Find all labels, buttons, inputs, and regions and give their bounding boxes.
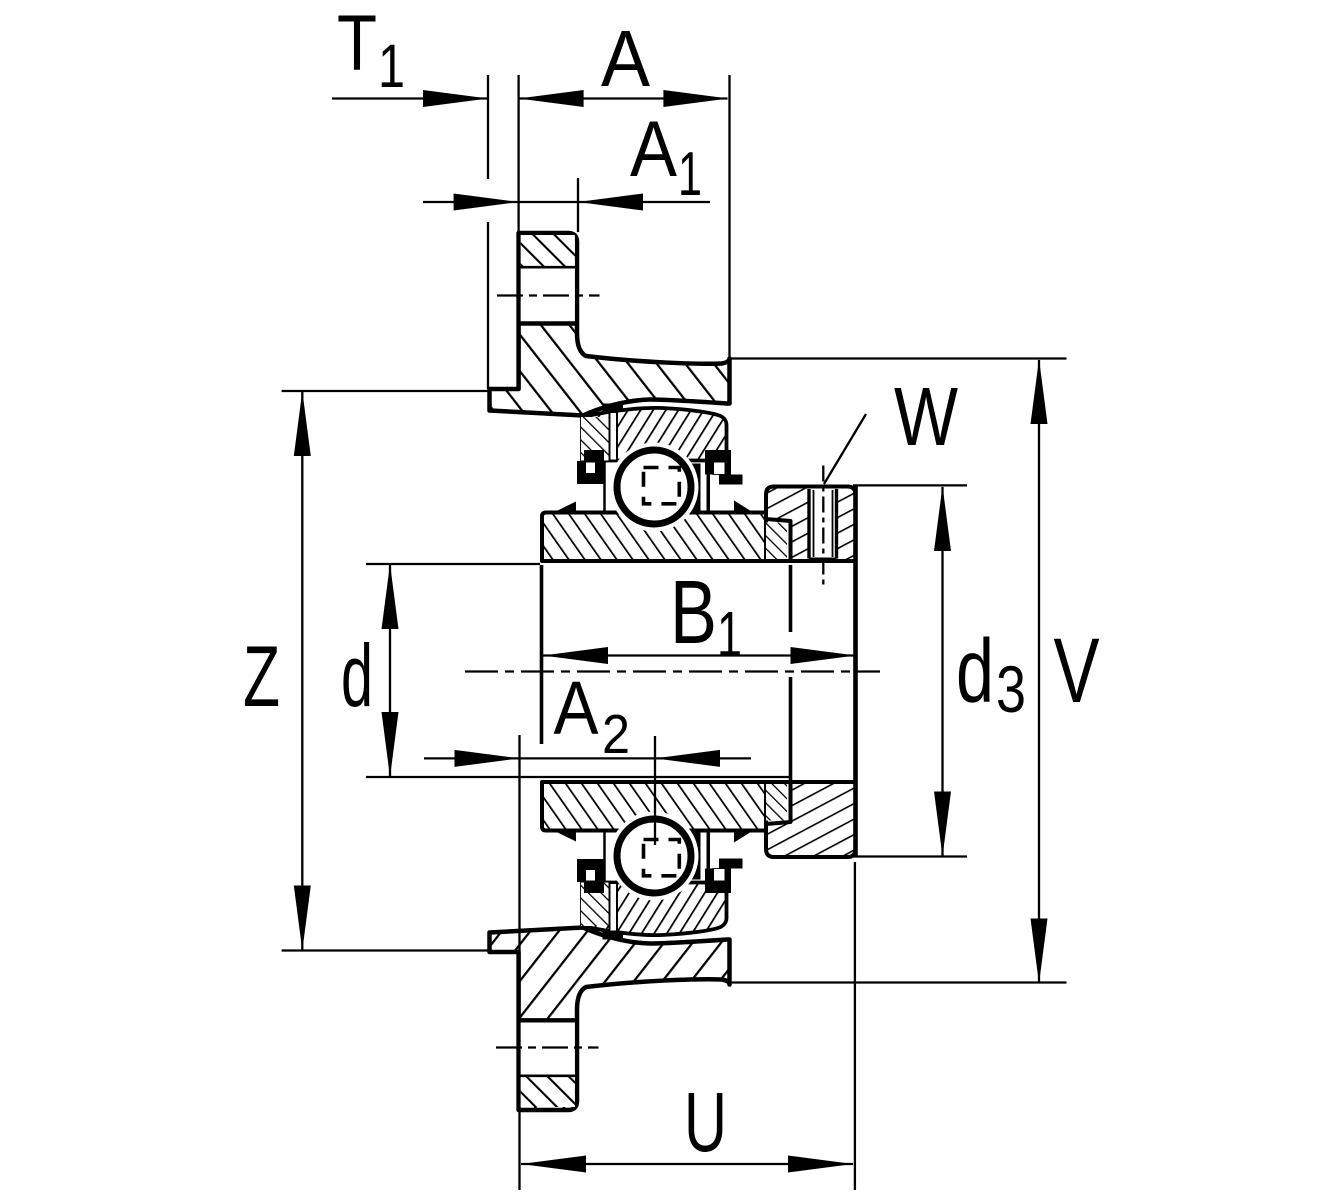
flinger lower right — [734, 831, 753, 843]
seal clamp upper left (black) — [603, 404, 624, 413]
dimension T1 line — [332, 97, 487, 99]
leader line W — [824, 414, 866, 484]
dimension Z line — [301, 392, 303, 950]
svg-text:A: A — [601, 14, 651, 103]
extension line d3 top — [853, 484, 967, 486]
svg-text:A: A — [554, 666, 599, 750]
svg-text:d: d — [341, 626, 373, 725]
inner ring shoulder lower right — [690, 832, 701, 880]
seal ring upper right (hatched) — [766, 523, 787, 562]
dimension d line — [389, 565, 391, 776]
upper bolt hole bottom edge — [519, 321, 577, 325]
set screw slot (white) — [811, 489, 836, 559]
raceway clearance upper — [610, 443, 699, 532]
svg-text:2: 2 — [602, 703, 630, 765]
extension line d3 bottom — [853, 855, 967, 857]
bore surface lower — [546, 780, 854, 784]
seal clamp lower left (black) — [603, 931, 624, 940]
ball reference square lower (dashed) — [644, 840, 680, 876]
raceway clearance lower — [610, 812, 699, 901]
upper bolt hole axis — [497, 294, 600, 296]
ball reference square upper (dashed) — [644, 468, 680, 504]
svg-text:1: 1 — [717, 598, 742, 670]
svg-text:1: 1 — [678, 140, 702, 209]
upper bolt hole top edge — [519, 266, 577, 269]
dimension A line — [520, 97, 728, 99]
inner ring shoulder lower left — [603, 832, 606, 881]
svg-text:3: 3 — [996, 652, 1026, 726]
flanged housing upper cross-section (hatched) — [490, 233, 730, 416]
extension line A2 right — [654, 736, 656, 845]
set screw thread line right — [832, 490, 834, 557]
flinger upper right — [734, 501, 753, 513]
seal lip lower left (black) — [584, 882, 604, 893]
dimension A2 line — [424, 757, 751, 759]
seal slot upper left (white) — [610, 412, 618, 461]
extension line U right — [854, 862, 856, 1190]
svg-text:A: A — [630, 104, 677, 193]
set screw right edge — [835, 489, 838, 559]
svg-text:1: 1 — [378, 32, 405, 100]
extension line d bottom — [366, 776, 789, 778]
inner ring right face edge upper — [789, 565, 793, 632]
shaft axis center line — [465, 670, 880, 672]
extension line Z top — [282, 390, 489, 392]
seal slot lower left (white) — [610, 883, 618, 932]
seal ring upper left (hatched) — [581, 417, 609, 461]
svg-text:B: B — [670, 563, 717, 663]
collar right face — [853, 487, 858, 858]
extension line V top — [730, 357, 1067, 359]
upper boss thread band (hatched) — [521, 235, 575, 267]
flanged housing lower cross-section (hatched) — [490, 928, 730, 1111]
ball upper — [617, 450, 691, 524]
upper bolt hole clearance (white) — [521, 235, 575, 322]
dimension U line — [521, 1163, 853, 1165]
eccentric locking collar upper section (hatched) — [766, 487, 856, 562]
outer ring lower (hatched) — [582, 870, 727, 935]
outer ring upper (hatched) — [582, 408, 727, 473]
extension line V bottom — [730, 981, 1067, 983]
extension line Z bottom — [282, 949, 489, 951]
set screw left edge — [807, 489, 810, 559]
svg-text:V: V — [1054, 620, 1100, 722]
inner ring shoulder upper right — [690, 464, 701, 512]
seal lip upper right (black) — [705, 450, 731, 475]
dimension B1 line — [543, 654, 856, 656]
set screw bottom end — [809, 558, 837, 562]
inner ring lower section (hatched) — [542, 782, 766, 831]
inner ring right face edge lower — [789, 677, 793, 780]
extension line A2 left / U left — [518, 735, 520, 952]
inner ring left face edge — [540, 565, 544, 744]
flinger lower left — [557, 832, 577, 842]
set screw thread line left — [813, 490, 815, 557]
extension line housing front face — [728, 75, 730, 359]
bore surface upper — [546, 559, 854, 563]
extension line flange spigot face — [487, 75, 489, 179]
svg-text:W: W — [894, 370, 959, 463]
lower boss thread band (hatched) — [521, 1076, 575, 1107]
lower bolt hole top edge — [519, 1018, 577, 1022]
lower bolt hole axis — [496, 1046, 599, 1048]
dimension A1 line — [423, 201, 710, 203]
seal ring lower left (hatched) — [581, 883, 609, 927]
dimension V line — [1038, 360, 1040, 983]
ball lower — [617, 819, 691, 893]
eccentric locking collar lower section (hatched) — [766, 782, 856, 857]
svg-text:U: U — [684, 1075, 727, 1169]
set screw axis — [822, 466, 824, 589]
lower bolt hole clearance (white) — [521, 1021, 575, 1107]
svg-text:d: d — [956, 622, 994, 722]
seal lip lower right (black) — [705, 869, 731, 894]
dimension d3 line — [941, 487, 943, 856]
seal ring lower right (hatched) — [766, 782, 787, 821]
inner ring upper section (hatched) — [542, 513, 766, 562]
inner ring shoulder upper left — [603, 462, 606, 511]
extension line d top — [366, 563, 540, 565]
extension line A1 right — [577, 178, 579, 232]
flinger upper left — [557, 502, 577, 512]
seal lip upper left (black) — [584, 450, 604, 461]
lower bolt hole bottom edge — [519, 1075, 577, 1078]
svg-text:T: T — [337, 0, 377, 87]
extension line flange front face top — [517, 75, 519, 233]
svg-text:Z: Z — [243, 629, 280, 725]
